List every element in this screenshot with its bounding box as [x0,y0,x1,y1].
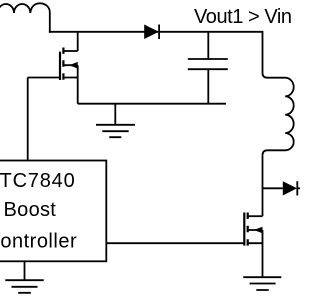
inductor L1 (top-left input inductor) [0,3,50,32]
Q1 channel segments [62,48,64,80]
ground (under Q2 source) [243,277,281,290]
transistor Q2 (bottom N-channel MOSFET) [106,213,262,278]
Q2 body arrow [254,227,263,234]
wire: right rail from L2 down to Q2 drain [262,155,264,216]
diode D2 (snubber diode, right) [263,181,301,195]
Q1 drain lead [63,50,77,52]
svg-text:Controller: Controller [0,231,77,253]
wire: ground rail under Q1 and C1 [78,103,226,105]
Q2 channel segments [247,213,249,246]
wire: top rail from L1 to top-right corner [49,32,263,73]
wire: drain stub from top rail down to Q1 [77,32,79,51]
Q1 gate lead [28,77,60,79]
op-amp U1 controller box LTC7840 [0,161,106,262]
ground (under controller box) [5,261,43,293]
capacitor C1 (output capacitor) [188,32,228,104]
Q2 gate lead [106,242,244,244]
Q1 gate bar [59,52,61,80]
svg-text:LTC7840: LTC7840 [0,170,76,192]
svg-text:Boost: Boost [4,199,57,221]
transistor Q1 (top N-channel MOSFET) [28,48,78,104]
Q2 body/source wire [248,230,263,277]
diode D1 (boost rectifier, top) [144,25,159,40]
Q1 body/source wire [63,65,77,104]
wire: Q1 gate down to controller box [27,78,29,161]
ground (under rail) [96,104,135,138]
svg-text:Vout1 > Vin: Vout1 > Vin [194,6,292,28]
Q1 body arrow [69,62,78,69]
inductor L2 (right-side vertical inductor) [263,73,294,155]
Q2 drain lead [248,215,263,217]
Q2 gate bar [243,213,245,246]
